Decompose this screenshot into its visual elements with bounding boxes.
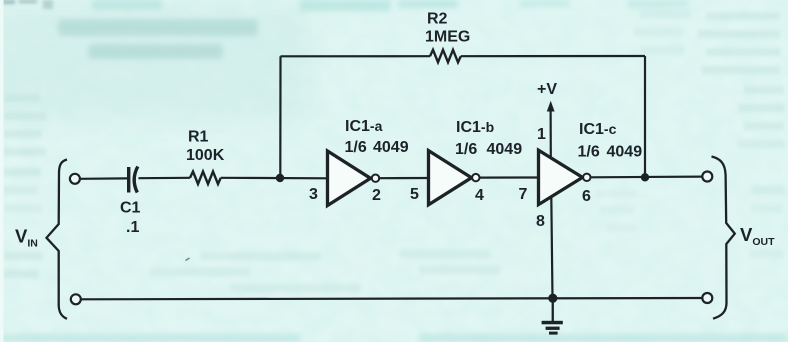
svg-text:5: 5 [410,186,419,203]
svg-text:1: 1 [537,126,546,143]
svg-text:7: 7 [519,186,528,203]
node: output feedback junction [641,173,649,181]
svg-text:4049: 4049 [373,139,409,156]
wire: IC1-a output to IC1-b input [379,177,429,179]
capacitor C1 [129,167,138,193]
svg-text:IC1-c: IC1-c [579,121,617,138]
wire: feedback top left segment [281,55,431,57]
bleed-through ghost text upper-left [58,19,258,59]
wire: pin 8 down to ground rail [551,197,552,299]
wire: feedback top right segment [461,55,645,57]
inverter IC1-c [539,150,591,204]
wire: pin 1 to +V arrow [549,108,551,158]
gray press smudges at top-left edge [2,0,53,9]
svg-text:.1: .1 [126,219,139,236]
wire: feedback left vertical [279,56,281,178]
soft darker wash upper-left quadrant [0,5,310,120]
svg-text:IC1-b: IC1-b [456,119,494,136]
wire: feedback right vertical [644,56,646,177]
svg-text:3: 3 [309,186,318,203]
+V supply arrow head [547,101,555,112]
svg-text:4: 4 [475,187,484,204]
wire: bottom rail [81,298,702,299]
svg-text:8: 8 [536,213,545,230]
wire: C1 to R1 [139,177,191,180]
svg-text:+V: +V [537,81,557,98]
svg-text:100K: 100K [186,147,225,164]
inverter IC1-a [328,151,380,206]
output terminal top [702,172,712,182]
resistor R1 [190,172,221,185]
svg-text:4049: 4049 [487,141,523,158]
svg-text:R2: R2 [427,11,448,28]
node: ground junction on bottom rail [548,294,557,303]
bleed-through ghost text bottom center [150,250,500,292]
V_IN brace [47,160,68,319]
ink speck [186,258,190,261]
input terminal top [70,174,80,184]
svg-text:4049: 4049 [607,144,643,161]
bleed-through ghost text right edge [596,10,784,258]
resistor R2 [430,50,461,63]
svg-text:IC1-a: IC1-a [345,118,383,135]
svg-text:R1: R1 [188,129,209,146]
inverter IC1-b [429,151,480,205]
ground [542,298,563,334]
svg-text:1/6: 1/6 [578,144,600,161]
svg-text:1/6: 1/6 [345,139,367,156]
wire: input top segment to C1 [80,177,127,180]
svg-text:1MEG: 1MEG [425,29,470,46]
V_OUT brace [712,157,735,319]
svg-text:6: 6 [582,188,591,205]
svg-text:C1: C1 [120,200,141,217]
svg-text:1/6: 1/6 [455,141,477,158]
svg-text:2: 2 [372,187,381,204]
input terminal bottom [71,294,81,304]
output terminal bottom [702,293,712,303]
wire: IC1-b output to IC1-c input [480,176,539,178]
wire: IC1-c output to right terminal [591,176,703,179]
white page edge [0,0,4,342]
node: feedback tap junction [276,174,284,182]
bleed-through ghost text left edge [4,94,46,278]
wire: R1 to IC1-a input pin 3 [221,177,328,180]
